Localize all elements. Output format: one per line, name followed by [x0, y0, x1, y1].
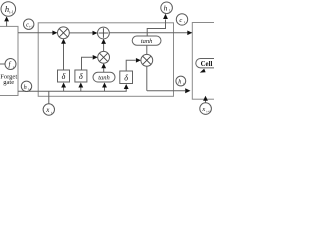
svg-text:t-1: t-1	[29, 25, 33, 29]
arrowhead x_{t+1} into next box	[203, 96, 208, 101]
multiplier X3	[141, 54, 153, 66]
wire X3 up to tanh1	[146, 46, 148, 55]
svg-text:t+1: t+1	[206, 109, 211, 113]
multiplier X1	[58, 27, 70, 39]
arrowhead into X1	[52, 31, 57, 36]
wire X3 down to h-line	[146, 66, 148, 91]
wire riser sigma2	[80, 85, 82, 92]
arrowhead into sigma2	[78, 83, 83, 88]
arrowhead into X2 left	[93, 55, 98, 60]
wire X2 up to plus	[103, 40, 105, 52]
svg-text:c: c	[179, 17, 182, 24]
arrowhead c into next box	[187, 31, 192, 36]
wire dash into f_t	[0, 63, 5, 65]
svg-text:h: h	[178, 78, 181, 85]
svg-text:t-1: t-1	[28, 87, 32, 91]
node c_{t-1} circle	[24, 19, 34, 29]
next cell box	[192, 23, 222, 100]
svg-text:t: t	[13, 65, 14, 69]
svg-text:t: t	[169, 9, 170, 13]
svg-text:h: h	[164, 4, 168, 13]
arrowhead into sigma1	[61, 83, 66, 88]
label Forget gate	[0, 73, 17, 86]
svg-text:h: h	[24, 84, 27, 91]
wire c-line plus to next box	[109, 32, 191, 34]
arrowhead into h_{t-1} top circle	[4, 16, 9, 21]
wire c-line c_{t-1} into multiplier	[18, 32, 57, 34]
node h_{t-1} bottom circle	[21, 81, 32, 91]
wire riser tanh2	[104, 85, 106, 92]
arrowhead into tanh2	[102, 83, 107, 88]
previous cell box	[0, 26, 18, 95]
sigma box 1	[58, 70, 70, 82]
svg-text:gate: gate	[3, 79, 14, 86]
multiplier X2	[98, 51, 110, 63]
wire tanh2 up to X2	[103, 64, 105, 72]
svg-text:tanh: tanh	[141, 38, 153, 45]
tanh oval bottom	[93, 72, 115, 82]
current cell box	[38, 23, 173, 97]
node h_t top circle	[161, 2, 173, 14]
arrowhead into h_t circle	[163, 14, 168, 19]
wire sigma2 L into X2	[82, 57, 93, 70]
wire riser sigma1	[63, 85, 65, 92]
arrowhead into X3 left	[136, 58, 141, 63]
node f_t circle	[5, 59, 16, 70]
sigma box 2	[75, 70, 87, 82]
svg-text:tanh: tanh	[98, 75, 110, 82]
wire riser sigma3	[125, 86, 127, 91]
arrowhead into plus bottom	[101, 39, 106, 44]
svg-text:t-1: t-1	[9, 10, 13, 15]
arrowhead from Cell label pointing down-left	[200, 69, 206, 73]
node h_t bottom circle	[176, 76, 186, 86]
svg-text:δ: δ	[79, 72, 83, 81]
wire tanh1 up and over to h_t	[147, 20, 165, 37]
arrowhead into X2 bottom	[101, 63, 106, 68]
arrowhead h into next box	[185, 88, 190, 93]
svg-text:Cell: Cell	[201, 61, 213, 68]
wire c-line X1 to plus	[69, 32, 96, 34]
adder plus	[98, 27, 110, 39]
wire x_{t+1} riser	[205, 101, 207, 103]
wire sigma1 up to X1	[63, 40, 65, 71]
svg-text:δ: δ	[62, 72, 66, 81]
arrowhead into plus	[93, 31, 98, 36]
wire prev box up to h_{t-1} top	[6, 22, 8, 27]
node h_{t-1} top circle	[1, 2, 16, 17]
wire x_t riser	[48, 91, 50, 104]
wire h-line input bus	[18, 90, 127, 92]
arrowhead into sigma3	[124, 84, 129, 89]
svg-text:t: t	[51, 110, 52, 114]
wire h-line output to next box	[147, 90, 185, 92]
node c_t circle	[176, 14, 187, 25]
svg-text:t: t	[183, 82, 184, 86]
node x_t circle	[43, 104, 54, 115]
svg-text:δ: δ	[124, 73, 128, 82]
wire sigma3 L into X3	[126, 60, 136, 71]
label Cell oval in next box	[196, 59, 219, 73]
tanh oval top	[132, 36, 161, 45]
sigma box 3	[120, 71, 133, 84]
arrowhead into X1 bottom	[61, 39, 66, 44]
node x_{t+1} circle	[200, 103, 212, 115]
svg-text:x: x	[201, 106, 205, 113]
svg-text:t: t	[184, 20, 185, 24]
